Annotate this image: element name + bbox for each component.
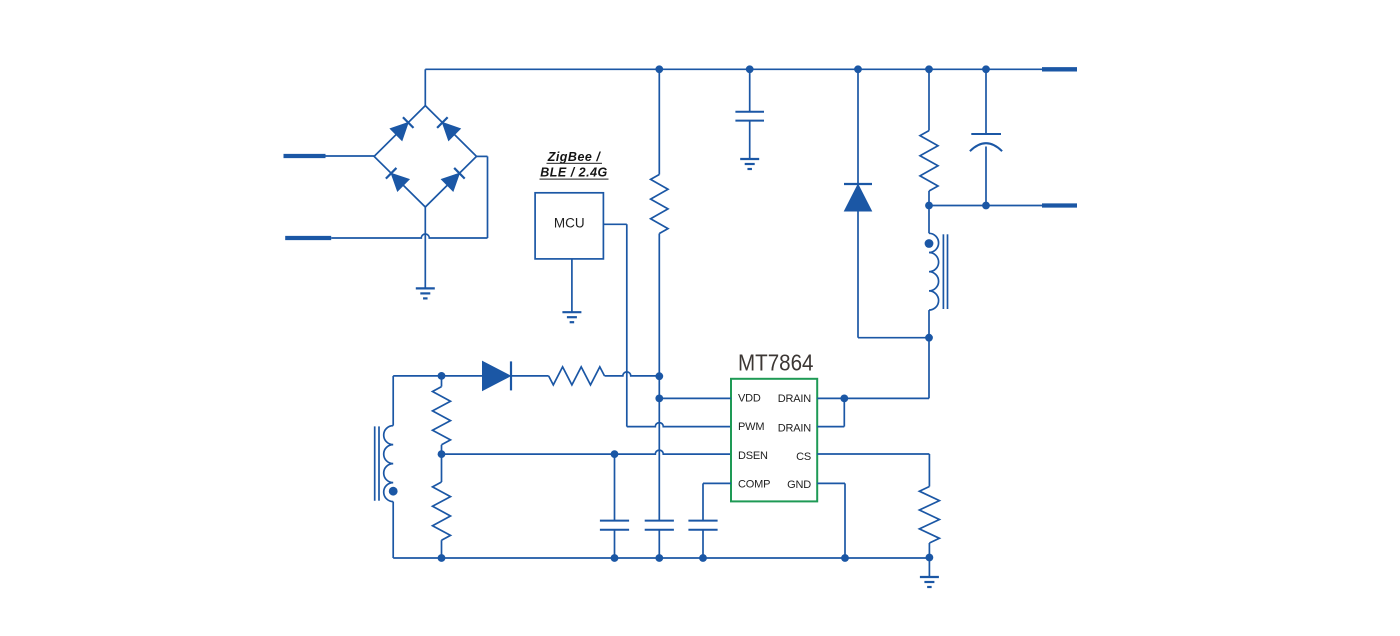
svg-text:VDD: VDD	[738, 393, 761, 405]
svg-text:MT7864: MT7864	[738, 350, 814, 376]
svg-text:COMP: COMP	[738, 478, 770, 490]
svg-text:DSEN: DSEN	[738, 450, 768, 462]
svg-text:GND: GND	[787, 479, 811, 491]
svg-text:DRAIN: DRAIN	[778, 423, 811, 435]
svg-text:BLE / 2.4G: BLE / 2.4G	[540, 166, 608, 180]
svg-text:MCU: MCU	[554, 216, 585, 231]
svg-text:PWM: PWM	[738, 421, 764, 433]
svg-text:ZigBee /: ZigBee /	[547, 150, 602, 164]
svg-text:DRAIN: DRAIN	[778, 393, 811, 405]
svg-text:CS: CS	[796, 451, 811, 463]
